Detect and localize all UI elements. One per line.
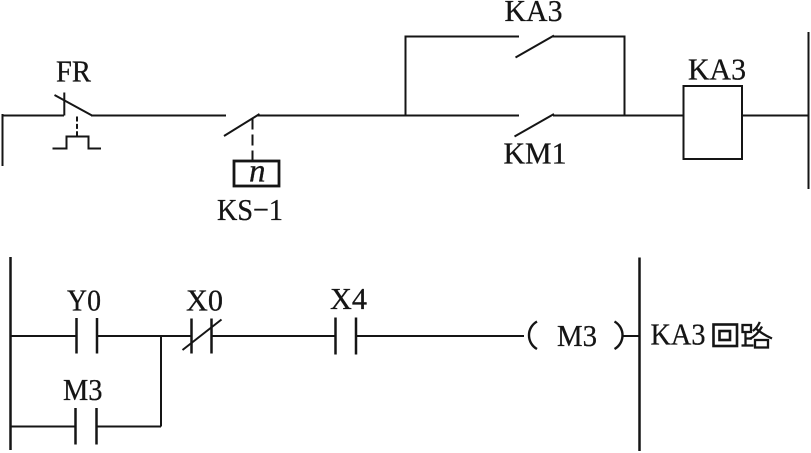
M3 branch wire (right of contact) xyxy=(97,426,162,428)
contact KS-1 (speed switch, NO) xyxy=(224,114,260,136)
contact FR (NC thermal relay contact) xyxy=(55,93,93,116)
contact M3 xyxy=(76,408,97,445)
right rail (ladder) xyxy=(638,258,641,452)
wire X0 to X4 xyxy=(212,335,335,337)
wire Y0 to X0 xyxy=(97,335,191,337)
wire coil to right rail xyxy=(742,115,808,117)
parallel branch left vertical xyxy=(405,36,407,116)
branch top wire (right of KA3 contact) xyxy=(552,36,626,38)
coil M3 parentheses xyxy=(529,322,623,350)
contact KA3 (NO) xyxy=(516,36,555,58)
M3 branch wire (left of contact) xyxy=(10,426,76,428)
left rail (ladder) xyxy=(9,257,12,450)
wire X4 to coil M3 xyxy=(356,335,524,337)
svg-text:Y0: Y0 xyxy=(67,283,101,318)
wire coil to right rail xyxy=(624,335,641,337)
contact Y0 xyxy=(77,318,98,354)
coil KA3 box xyxy=(684,86,743,159)
contact X4 xyxy=(336,318,357,355)
svg-text:n: n xyxy=(249,154,266,190)
left stub rail (top circuit) xyxy=(2,114,4,166)
FR thermal element symbol xyxy=(53,137,102,149)
KS-1 dashed linkage xyxy=(252,119,254,162)
hanzi LU (路) xyxy=(742,322,773,348)
wire KM1 to coil xyxy=(553,115,683,117)
svg-text:M3: M3 xyxy=(557,318,597,353)
wire left to FR xyxy=(2,115,65,117)
M3 branch vertical xyxy=(160,336,162,427)
svg-text:FR: FR xyxy=(56,54,91,89)
rung wire rail to Y0 xyxy=(10,335,76,337)
svg-text:KS−1: KS−1 xyxy=(217,192,283,227)
svg-text:X0: X0 xyxy=(186,283,223,318)
FR dashed linkage xyxy=(76,117,78,137)
svg-text:KA3: KA3 xyxy=(688,52,746,87)
svg-text:KA3: KA3 xyxy=(651,317,706,352)
right rail (top circuit) xyxy=(808,32,810,189)
wire FR to KS-1 xyxy=(91,115,226,117)
svg-text:KM1: KM1 xyxy=(504,136,567,171)
svg-text:KA3: KA3 xyxy=(505,0,563,28)
hanzi HUI (回) xyxy=(714,325,738,347)
svg-text:X4: X4 xyxy=(330,281,367,316)
contact KM1 (NO) xyxy=(515,114,555,137)
wire KS-1 to KM1 contact xyxy=(257,115,519,117)
svg-text:M3: M3 xyxy=(63,372,103,407)
parallel branch right vertical xyxy=(624,36,626,116)
contact X0 (NC with slash) xyxy=(183,319,222,354)
branch top wire (left of KA3 contact) xyxy=(405,36,520,38)
KS-1 sensor box xyxy=(234,161,279,186)
